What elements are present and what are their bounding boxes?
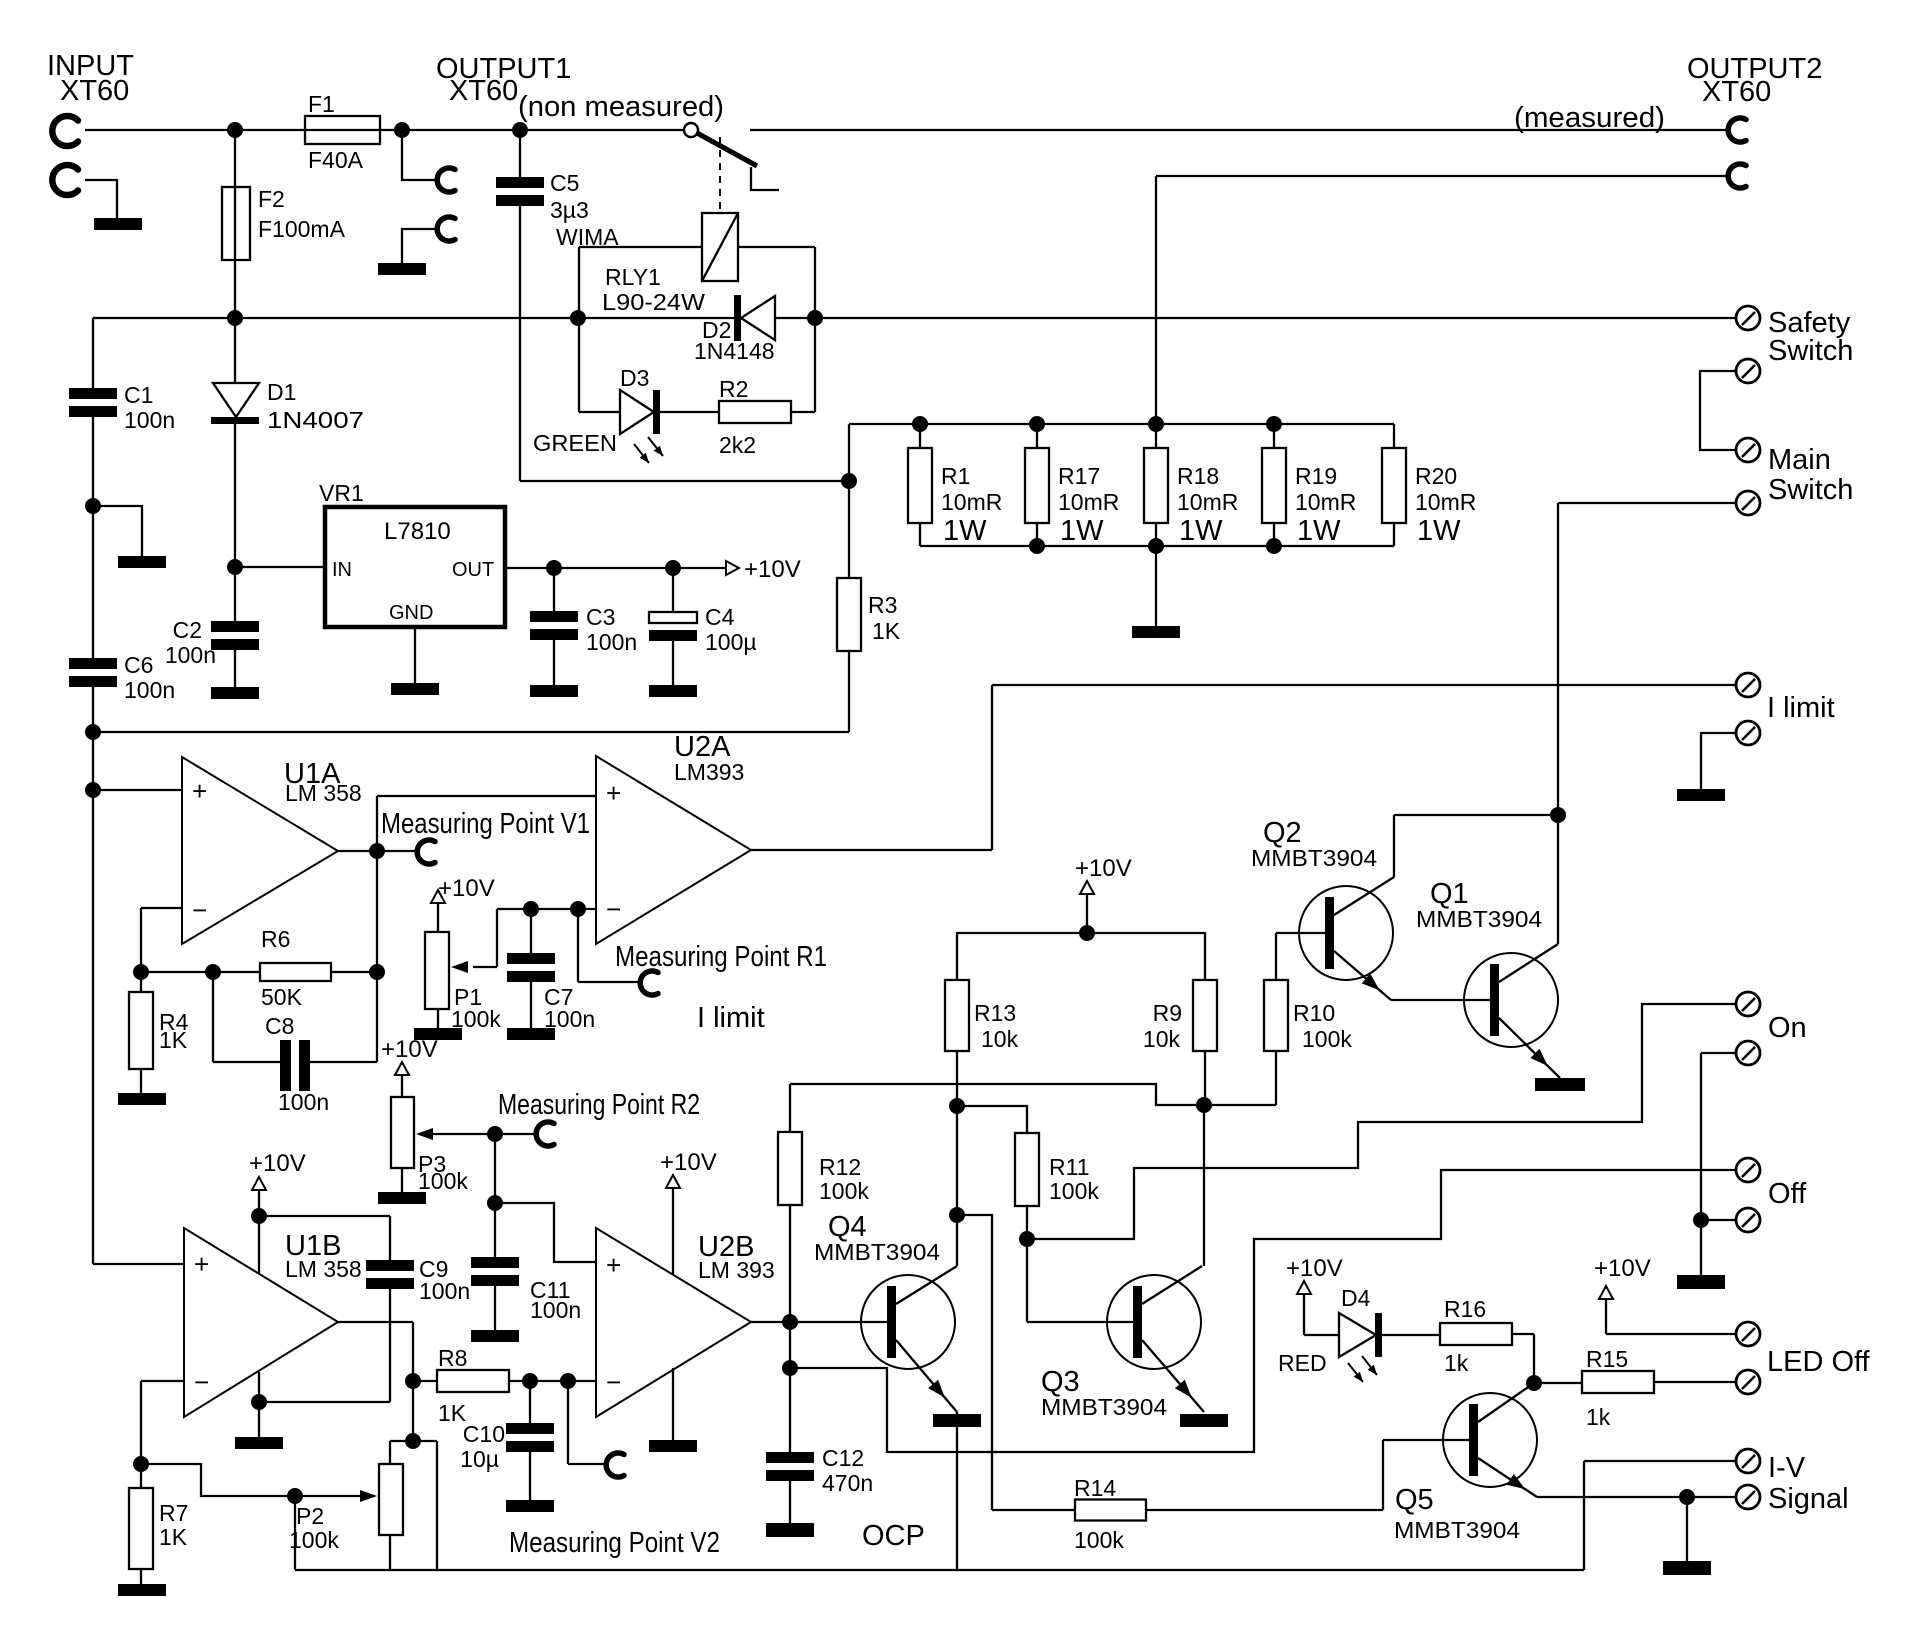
diode D4 RED led xyxy=(1278,1285,1382,1382)
svg-text:−: − xyxy=(192,895,207,925)
svg-text:R14: R14 xyxy=(1074,1475,1116,1501)
capacitor C8 100n xyxy=(213,972,377,1115)
connector OUTPUT1 pin 2 (arc) xyxy=(437,217,455,241)
fuse F2 F100mA xyxy=(222,130,346,318)
junction R4 top xyxy=(133,964,149,980)
wire U1B plus input xyxy=(93,1263,184,1265)
svg-text:R3: R3 xyxy=(868,592,897,618)
svg-text:−: − xyxy=(194,1367,209,1397)
ground C2 xyxy=(211,687,259,699)
svg-text:IN: IN xyxy=(332,559,352,581)
svg-text:L90-24W: L90-24W xyxy=(602,289,705,315)
wire U1B minus input xyxy=(141,1381,184,1464)
svg-text:100n: 100n xyxy=(530,1297,581,1323)
svg-text:+10V: +10V xyxy=(249,1150,306,1177)
ground U1B xyxy=(235,1437,283,1449)
resistor R12 100k xyxy=(778,1084,869,1322)
node OUTPUT1 XT60 label xyxy=(436,53,724,123)
svg-text:XT60: XT60 xyxy=(449,75,518,107)
svg-text:100k: 100k xyxy=(819,1178,869,1204)
junction +10V bus xyxy=(1079,925,1095,941)
wire bank left riser xyxy=(848,424,850,578)
wire relay dashed link xyxy=(719,137,721,213)
wire U1B output xyxy=(338,1322,413,1381)
svg-text:1W: 1W xyxy=(1417,515,1461,547)
wire relay box top right xyxy=(738,247,815,412)
wire U2B output down xyxy=(789,1322,791,1368)
wire bottom rail to I-V terminal xyxy=(295,1569,1584,1571)
svg-text:50K: 50K xyxy=(261,984,303,1010)
terminal Off pin 2 xyxy=(1701,1208,1760,1232)
wire R12 top to R9 node xyxy=(790,1084,1204,1105)
junction R15/Q5 collector node xyxy=(1526,1375,1542,1391)
svg-text:Switch: Switch xyxy=(1768,335,1853,367)
svg-text:100n: 100n xyxy=(586,629,637,655)
op-amp U2A LM393 xyxy=(596,731,751,944)
svg-text:R12: R12 xyxy=(819,1154,861,1180)
junction U1B supply branch xyxy=(251,1208,267,1224)
svg-text:R17: R17 xyxy=(1058,463,1100,489)
svg-text:XT60: XT60 xyxy=(1702,76,1771,108)
wire R14 to Q5 base xyxy=(1383,1440,1469,1510)
svg-text:+10V: +10V xyxy=(1286,1255,1343,1282)
svg-text:D3: D3 xyxy=(620,365,649,391)
resistor R11 100k xyxy=(1015,1133,1099,1322)
wire R7 to P2 wiper xyxy=(141,1464,295,1496)
wire R3 bottom to left rail xyxy=(93,731,849,733)
terminal I limit xyxy=(1736,673,1835,724)
resistor R10 100k xyxy=(1204,933,1352,1105)
junction input/F2 node xyxy=(227,122,243,138)
svg-text:10mR: 10mR xyxy=(1058,489,1119,515)
svg-text:100n: 100n xyxy=(419,1278,470,1304)
svg-text:Measuring Point V2: Measuring Point V2 xyxy=(509,1527,720,1559)
wire left rail down xyxy=(92,318,94,1264)
terminal LED Off xyxy=(1736,1322,1871,1378)
svg-text:1W: 1W xyxy=(1297,515,1341,547)
svg-text:100n: 100n xyxy=(124,677,175,703)
svg-text:F1: F1 xyxy=(308,91,335,117)
svg-text:OCP: OCP xyxy=(862,1520,925,1552)
node Measuring Point R2 xyxy=(495,1089,700,1146)
junction bank bottom xyxy=(1029,538,1045,554)
capacitor C2 100n xyxy=(165,567,259,687)
ground Off terminal xyxy=(1677,1275,1725,1289)
ground R4 xyxy=(118,1093,166,1105)
svg-text:+10V: +10V xyxy=(381,1036,438,1063)
svg-text:XT60: XT60 xyxy=(60,75,129,107)
diode D2 1N4148 xyxy=(694,295,775,364)
transistor Q1 MMBT3904 xyxy=(1391,815,1560,1078)
wire bank top bus xyxy=(849,423,1394,425)
ground C12 xyxy=(766,1523,814,1537)
junction P2 wiper node xyxy=(287,1488,303,1504)
wire U1A minus input xyxy=(141,908,182,972)
junction U1B ground node xyxy=(251,1394,267,1410)
wire P2 wiper loop xyxy=(294,1496,296,1570)
svg-text:F2: F2 xyxy=(258,186,285,212)
wire U1A output xyxy=(338,850,417,852)
+10V power symbol LED Off xyxy=(1594,1255,1651,1334)
svg-text:C4: C4 xyxy=(705,604,735,630)
svg-text:R16: R16 xyxy=(1444,1296,1486,1322)
connector OUTPUT2 pin 2 (arc) xyxy=(1728,164,1746,188)
svg-text:MMBT3904: MMBT3904 xyxy=(1394,1517,1520,1543)
wire P3 wiper down xyxy=(494,1134,496,1203)
svg-text:100n: 100n xyxy=(278,1089,329,1115)
ground bank xyxy=(1132,626,1180,638)
op-amp U2B LM393 xyxy=(596,1228,775,1417)
ground C7 xyxy=(507,1028,555,1040)
junction C7 top xyxy=(523,901,539,917)
wire R13 to R11 xyxy=(957,1106,1027,1133)
+10V power symbol U1B xyxy=(249,1150,306,1274)
svg-text:MMBT3904: MMBT3904 xyxy=(814,1239,940,1265)
resistor R2 2k2 xyxy=(660,376,815,458)
svg-text:R20: R20 xyxy=(1415,463,1457,489)
node I limit annotation xyxy=(697,1002,765,1034)
node Measuring Point R1 xyxy=(578,909,827,995)
junction left rail R3 wire xyxy=(85,724,101,740)
wire Q4 node to R14 xyxy=(957,1215,992,1510)
svg-text:−: − xyxy=(606,1367,621,1397)
junction Signal ground node xyxy=(1679,1489,1695,1505)
wire U2B output to Q4 base xyxy=(751,1321,887,1323)
svg-text:Measuring Point R1: Measuring Point R1 xyxy=(615,941,827,973)
svg-text:(measured): (measured) xyxy=(1514,102,1665,134)
svg-text:1W: 1W xyxy=(1179,515,1223,547)
wire U2B ground pin xyxy=(672,1368,674,1440)
ground input xyxy=(94,218,142,230)
svg-text:100k: 100k xyxy=(1049,1178,1099,1204)
svg-text:1k: 1k xyxy=(1586,1404,1611,1430)
svg-text:P2: P2 xyxy=(296,1503,324,1529)
svg-text:GND: GND xyxy=(389,602,433,624)
fuse F1 F40A xyxy=(305,91,380,173)
wire LED Off xyxy=(1606,1333,1735,1335)
diode D1 1N4007 xyxy=(211,318,364,567)
svg-text:100k: 100k xyxy=(289,1527,339,1553)
wire to U2B plus input xyxy=(495,1203,596,1262)
junction Q1/Q2 collector node xyxy=(1550,807,1566,823)
wire relay box top left xyxy=(579,247,702,412)
junction bank left xyxy=(841,473,857,489)
svg-text:OUT: OUT xyxy=(452,559,494,581)
svg-text:100n: 100n xyxy=(165,642,216,668)
junction bank top xyxy=(1148,416,1164,432)
svg-text:R7: R7 xyxy=(159,1500,188,1526)
svg-text:D1: D1 xyxy=(267,379,296,405)
svg-text:Main: Main xyxy=(1768,444,1831,476)
junction U1A output xyxy=(369,843,385,859)
capacitor C11 100n xyxy=(471,1203,581,1330)
resistor R3 1K xyxy=(837,578,901,732)
svg-text:F40A: F40A xyxy=(308,147,364,173)
svg-text:10mR: 10mR xyxy=(1415,489,1476,515)
junction left rail ground branch xyxy=(85,498,101,514)
svg-text:+10V: +10V xyxy=(1594,1255,1651,1282)
node Measuring Point V1 xyxy=(381,808,590,864)
svg-text:R15: R15 xyxy=(1586,1346,1628,1372)
junction V2 branch node xyxy=(560,1373,576,1389)
terminal I limit ground pin xyxy=(1701,721,1760,789)
capacitor C4 100u electrolytic xyxy=(649,568,757,685)
capacitor C7 100n xyxy=(507,909,595,1032)
svg-text:Signal: Signal xyxy=(1768,1483,1849,1515)
svg-text:RED: RED xyxy=(1278,1350,1327,1376)
junction bank top xyxy=(912,416,928,432)
terminal Signal xyxy=(1736,1485,1760,1509)
capacitor C6 100n xyxy=(69,652,175,703)
svg-text:1N4148: 1N4148 xyxy=(694,338,775,364)
ground I limit terminal xyxy=(1677,789,1725,801)
svg-text:+: + xyxy=(606,778,621,808)
wire switch to OUTPUT2 xyxy=(750,129,1727,131)
svg-text:LM 358: LM 358 xyxy=(285,1256,362,1282)
svg-text:VR1: VR1 xyxy=(319,480,364,506)
junction C4 node xyxy=(665,560,681,576)
regulator VR1 L7810 xyxy=(235,480,726,683)
ground Q1 emitter xyxy=(1535,1078,1585,1091)
svg-text:−: − xyxy=(606,894,621,924)
ground Signal xyxy=(1663,1561,1711,1575)
svg-text:10mR: 10mR xyxy=(1177,489,1238,515)
junction Off ground node xyxy=(1693,1212,1709,1228)
resistor R20 10mR 1W xyxy=(1382,424,1476,547)
ground C11 xyxy=(471,1330,519,1342)
svg-text:R8: R8 xyxy=(438,1345,467,1371)
junction C12 node xyxy=(782,1360,798,1376)
wire main switch to Q1/Q2 collectors xyxy=(1557,503,1559,815)
junction bank top xyxy=(1266,416,1282,432)
ground OUTPUT1 xyxy=(378,263,426,275)
potentiometer P2 100k xyxy=(289,1464,403,1570)
svg-text:C6: C6 xyxy=(124,652,153,678)
svg-text:MMBT3904: MMBT3904 xyxy=(1041,1394,1167,1420)
svg-text:+10V: +10V xyxy=(438,875,495,902)
potentiometer P1 100k xyxy=(425,932,501,1032)
+10V power symbol P1 xyxy=(431,875,495,932)
svg-text:R18: R18 xyxy=(1177,463,1219,489)
+10V power symbol P3 xyxy=(381,1036,438,1097)
resistor R7 1K xyxy=(129,1464,188,1584)
terminal R15 output xyxy=(1736,1370,1760,1394)
node OUTPUT2 XT60 label xyxy=(1514,53,1822,134)
wire P1 wiper to U2A minus xyxy=(497,909,596,967)
wire R11 node to On terminal xyxy=(1027,1004,1735,1239)
+10V output arrow xyxy=(726,556,801,583)
svg-text:10mR: 10mR xyxy=(941,489,1002,515)
svg-text:100k: 100k xyxy=(1074,1527,1124,1553)
svg-text:1k: 1k xyxy=(1444,1350,1469,1376)
svg-text:1K: 1K xyxy=(159,1524,188,1550)
connector OUTPUT2 pin 1 (arc) xyxy=(1728,118,1746,142)
diode D3 GREEN led xyxy=(533,365,663,463)
wire bank to OUTPUT2 pin2 xyxy=(1156,176,1727,424)
terminal I-V xyxy=(1584,1449,1849,1570)
resistor R14 100k xyxy=(992,1475,1383,1553)
ground U2B xyxy=(649,1440,697,1452)
+10V power symbol D4 xyxy=(1286,1255,1343,1335)
svg-text:3µ3: 3µ3 xyxy=(550,197,589,223)
svg-text:1W: 1W xyxy=(943,515,987,547)
wire R8 node to P2 and bottom rail xyxy=(390,1381,437,1570)
wire feedback bus xyxy=(141,851,377,972)
junction Q4 collector node xyxy=(949,1207,965,1223)
potentiometer P3 100k xyxy=(391,1097,495,1194)
+10V power symbol R13/R9 bus xyxy=(1075,855,1132,933)
junction C3 node xyxy=(546,560,562,576)
wire left rail to ground xyxy=(93,506,142,556)
junction VR1 input node xyxy=(227,559,243,575)
resistor R16 1k xyxy=(1382,1296,1534,1383)
wire OUTPUT1 pin2 to ground xyxy=(402,229,435,263)
junction bank bottom xyxy=(1266,538,1282,554)
svg-text:I limit: I limit xyxy=(697,1002,765,1034)
svg-text:Q5: Q5 xyxy=(1395,1484,1434,1516)
wire U1A output to U2A plus xyxy=(377,796,596,851)
svg-text:I limit: I limit xyxy=(1767,692,1835,724)
svg-text:D4: D4 xyxy=(1341,1285,1371,1311)
svg-text:C10: C10 xyxy=(463,1421,505,1447)
ground C4 xyxy=(649,685,697,697)
svg-text:MMBT3904: MMBT3904 xyxy=(1416,906,1542,932)
junction R8 left node xyxy=(405,1373,421,1389)
wire bank bottom bus xyxy=(920,545,1394,547)
svg-text:10k: 10k xyxy=(1143,1026,1181,1052)
svg-text:+10V: +10V xyxy=(744,556,801,583)
ground P3 xyxy=(378,1192,426,1204)
svg-text:470n: 470n xyxy=(822,1470,873,1496)
junction R6 right xyxy=(369,964,385,980)
terminal Main Switch lower xyxy=(1558,444,1853,515)
junction F2 bottom xyxy=(227,310,243,326)
svg-text:+10V: +10V xyxy=(660,1149,717,1176)
svg-text:100µ: 100µ xyxy=(705,629,757,655)
svg-text:LM 393: LM 393 xyxy=(698,1257,775,1283)
svg-text:MMBT3904: MMBT3904 xyxy=(1251,845,1377,871)
resistor R4 1K xyxy=(129,972,189,1093)
svg-text:Off: Off xyxy=(1768,1178,1807,1210)
svg-text:R6: R6 xyxy=(261,926,290,952)
svg-text:On: On xyxy=(1768,1012,1807,1044)
wire input top xyxy=(85,129,305,131)
junction C10 node xyxy=(522,1373,538,1389)
node Measuring Point V2 xyxy=(509,1381,720,1559)
svg-text:+10V: +10V xyxy=(1075,855,1132,882)
connector INPUT pin 2 (arc) xyxy=(52,165,78,195)
svg-text:C2: C2 xyxy=(173,617,202,643)
svg-text:10mR: 10mR xyxy=(1295,489,1356,515)
svg-text:10µ: 10µ xyxy=(460,1446,499,1472)
svg-text:100n: 100n xyxy=(124,407,175,433)
wire Signal ground xyxy=(1686,1497,1688,1561)
transistor Q5 MMBT3904 xyxy=(1394,1383,1537,1543)
connector INPUT pin 1 (arc) xyxy=(52,116,78,146)
svg-text:L7810: L7810 xyxy=(384,518,451,545)
svg-text:2k2: 2k2 xyxy=(719,432,756,458)
terminal Safety Switch xyxy=(1736,306,1853,367)
wire Q5 emitter to Signal terminal xyxy=(1537,1496,1735,1498)
connector OUTPUT1 pin 1 (arc) xyxy=(437,168,455,192)
op-amp U1A LM358 xyxy=(182,757,362,944)
ground left rail xyxy=(118,556,166,568)
ground R7 xyxy=(118,1584,166,1596)
wire F1 to output node xyxy=(380,129,684,131)
resistor R6 50K xyxy=(260,926,331,1010)
resistor R17 10mR 1W xyxy=(1025,424,1119,547)
wire R13 vertical to OCP bottom xyxy=(956,1106,958,1570)
node OCP annotation xyxy=(862,1520,925,1552)
junction relay box right xyxy=(807,310,823,326)
svg-text:Measuring Point V1: Measuring Point V1 xyxy=(381,808,590,840)
ground P1 xyxy=(414,1028,462,1040)
wire OUTPUT1 pin1 xyxy=(402,130,435,180)
svg-text:C3: C3 xyxy=(586,604,615,630)
svg-text:10k: 10k xyxy=(981,1026,1019,1052)
junction bank bottom xyxy=(1148,538,1164,554)
capacitor C12 470n xyxy=(766,1368,873,1523)
ground C10 xyxy=(506,1500,554,1512)
ground Q4 emitter xyxy=(933,1414,981,1427)
resistor R18 10mR 1W xyxy=(1144,424,1238,547)
wire bank center ground xyxy=(1155,546,1157,626)
svg-text:1W: 1W xyxy=(1060,515,1104,547)
svg-text:F100mA: F100mA xyxy=(258,216,346,242)
svg-text:C1: C1 xyxy=(124,382,153,408)
capacitor C5 3u3 WIMA xyxy=(496,130,619,481)
junction measuring R1 branch xyxy=(570,901,586,917)
wire +10V bus R13 R9 xyxy=(957,933,1205,980)
svg-text:(non measured): (non measured) xyxy=(518,91,724,123)
ground C3 xyxy=(530,685,578,697)
resistor R19 10mR 1W xyxy=(1262,424,1356,547)
capacitor C3 100n xyxy=(530,568,637,685)
svg-text:+: + xyxy=(194,1249,209,1279)
capacitor C9 100n xyxy=(259,1216,470,1402)
svg-text:C5: C5 xyxy=(550,170,579,196)
junction OUTPUT1 branch xyxy=(394,122,410,138)
svg-text:100k: 100k xyxy=(418,1168,468,1194)
terminal On pin 2 xyxy=(1701,1041,1760,1065)
resistor R9 10k xyxy=(1143,980,1217,1105)
svg-text:R2: R2 xyxy=(719,376,748,402)
svg-text:1K: 1K xyxy=(159,1027,188,1053)
junction C11 node xyxy=(487,1195,503,1211)
junction U2B output xyxy=(782,1314,798,1330)
wire input pin2 to ground xyxy=(85,180,117,218)
transistor Q2 MMBT3904 xyxy=(1251,815,1394,1000)
svg-text:R1: R1 xyxy=(941,463,970,489)
junction R13/R11 node xyxy=(949,1098,965,1114)
terminal Main Switch upper pair xyxy=(1700,359,1760,462)
ground Q3 emitter xyxy=(1180,1414,1228,1427)
junction U1A plus input xyxy=(85,782,101,798)
resistor R13 10k xyxy=(945,980,1019,1106)
junction P3 wiper node xyxy=(487,1126,503,1142)
wire U2A output to I limit xyxy=(751,685,1735,850)
svg-text:+: + xyxy=(192,776,207,806)
+10V power symbol U2B xyxy=(660,1149,717,1275)
wire C9 bottom to U1B ground xyxy=(259,1372,390,1437)
resistor R15 1k xyxy=(1534,1346,1735,1430)
resistor R1 10mR 1W xyxy=(908,424,1002,547)
capacitor C1 100n xyxy=(69,382,175,433)
svg-text:LM 358: LM 358 xyxy=(285,780,362,806)
svg-text:1N4007: 1N4007 xyxy=(267,407,364,433)
junction C8 left xyxy=(205,964,221,980)
junction C5 branch xyxy=(512,122,528,138)
